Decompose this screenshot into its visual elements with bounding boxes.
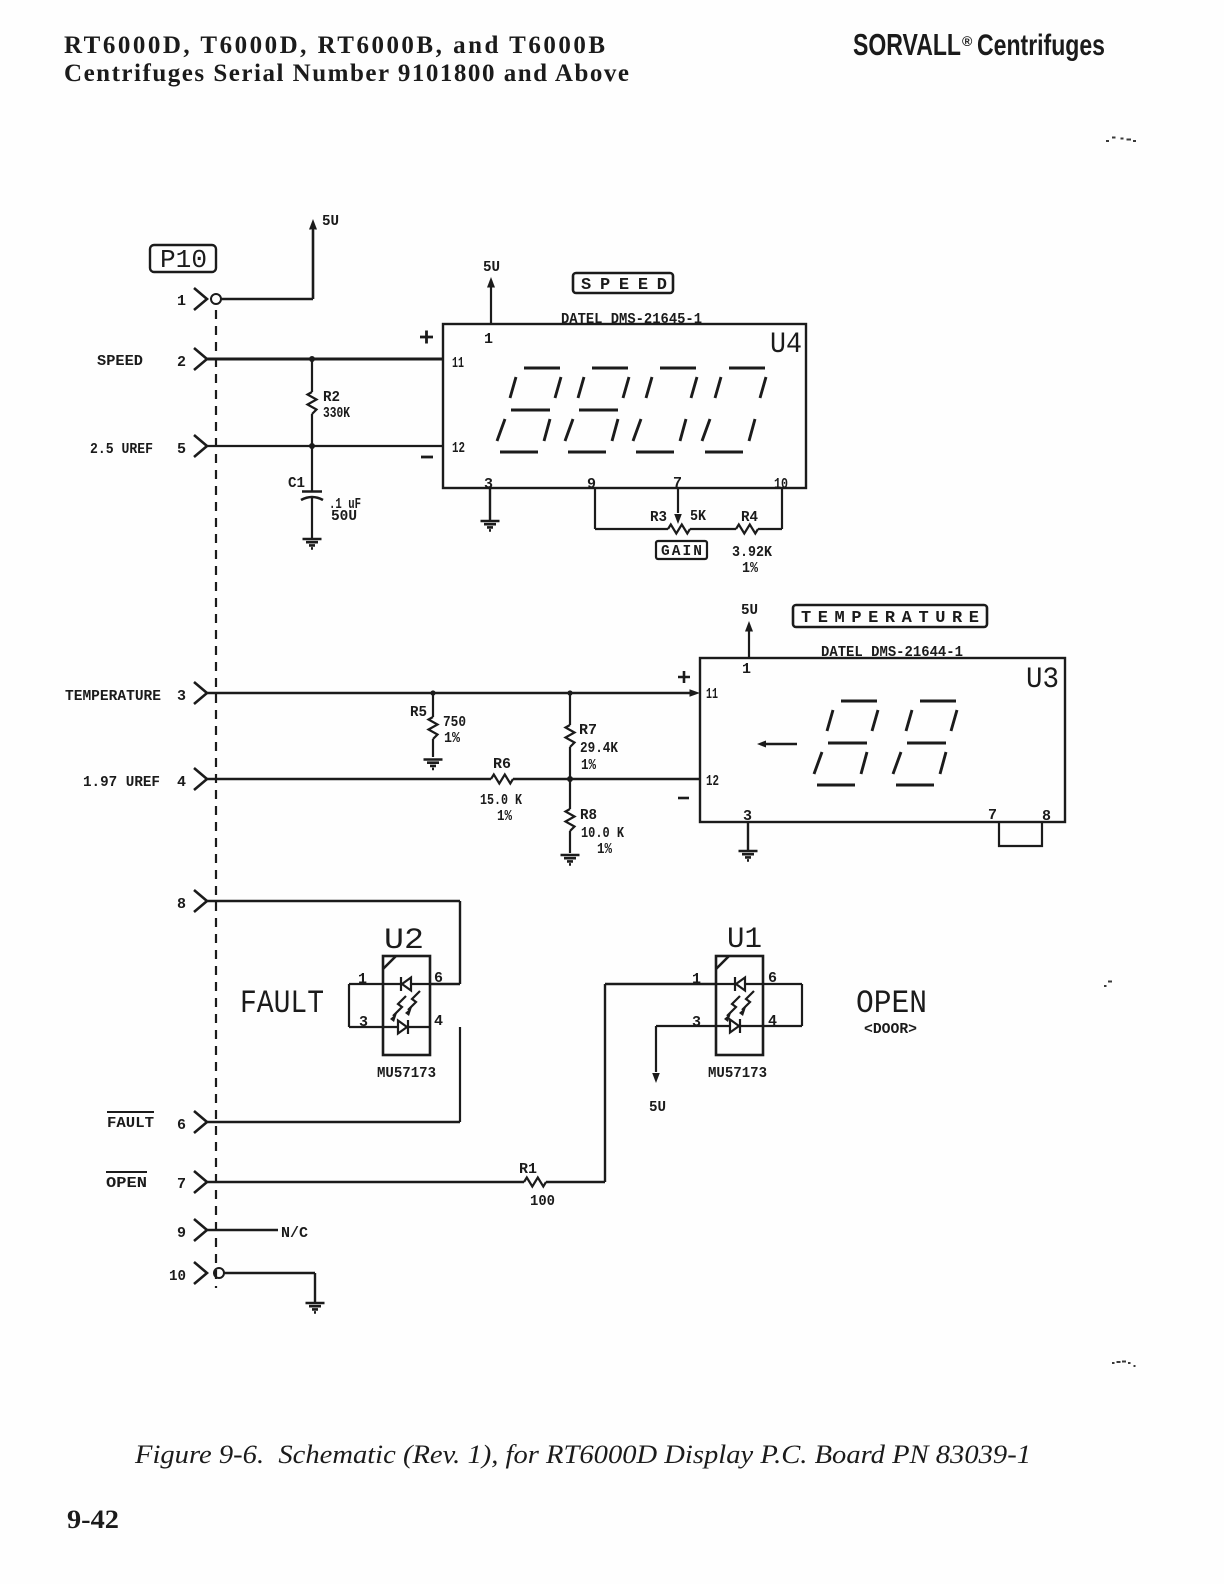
U4 pin 12 number: [452, 440, 465, 457]
pin 1 of P10: [177, 293, 186, 310]
resistor R2: [308, 359, 317, 446]
power 5V label upper-left: [322, 213, 339, 230]
U1 pin 6 number: [768, 970, 777, 987]
svg-text:9: 9: [177, 1225, 186, 1242]
U3 pin 3 number: [743, 808, 752, 825]
resistor R1 body: [524, 1178, 546, 1187]
optocoupler U2 box: [383, 956, 430, 1055]
svg-text:11: 11: [452, 355, 464, 372]
page number: [67, 1505, 119, 1534]
U2 pin 1 number: [358, 971, 367, 988]
SPEED title text: [581, 276, 667, 295]
svg-text:4: 4: [434, 1013, 443, 1030]
optocoupler U1 box: [716, 956, 763, 1055]
U4 pin 7 number: [673, 475, 682, 492]
U4 pin 1 number: [484, 331, 493, 348]
R3 wiper arrow from U4 pin7: [674, 488, 682, 524]
svg-text:11: 11: [706, 686, 718, 703]
svg-text:5U: 5U: [322, 213, 339, 230]
pin 10 chevron: [194, 1262, 207, 1284]
ground below pin10: [306, 1303, 325, 1312]
svg-text:1%: 1%: [581, 758, 596, 774]
svg-text:2: 2: [177, 354, 186, 371]
junction dot R7 top: [567, 690, 572, 695]
U4 digit 4: [702, 368, 766, 452]
svg-text:6: 6: [434, 970, 443, 987]
svg-text:1: 1: [358, 971, 367, 988]
net label OPENbar: [106, 1172, 147, 1192]
U2 lower LED: [383, 1020, 430, 1034]
junction dot R5 top: [430, 690, 435, 695]
net label 1.97 VREF: [83, 775, 160, 791]
U3 pin 7 number: [988, 807, 997, 824]
svg-text:R1: R1: [519, 1162, 537, 1178]
ground below C1: [303, 539, 322, 548]
resistor R8: [566, 779, 575, 853]
wire R4 to U4 pin10: [758, 488, 782, 529]
svg-text:OPEN: OPEN: [106, 1176, 147, 1192]
pin 6 of P10: [177, 1117, 186, 1134]
wire pin8 to U2 pin6: [207, 901, 460, 984]
GAIN label box: [656, 541, 707, 559]
svg-text:DATEL DMS-21645-1: DATEL DMS-21645-1: [561, 312, 702, 328]
svg-text:5U: 5U: [483, 259, 500, 276]
U1 pin 4 number: [768, 1013, 777, 1030]
wire R3 to R4: [690, 528, 736, 530]
svg-text:U2: U2: [384, 924, 424, 958]
svg-text:8: 8: [177, 896, 186, 913]
ground below U4 pin3: [481, 521, 500, 530]
svg-text:5K: 5K: [690, 509, 706, 525]
svg-text:7: 7: [988, 807, 997, 824]
U4 pin 11 number: [452, 355, 464, 372]
U2 upper LED: [383, 977, 430, 991]
pin 2 chevron: [194, 348, 207, 370]
svg-text:1%: 1%: [497, 809, 512, 825]
svg-text:50U: 50U: [331, 509, 357, 525]
U4 plus polarity sign: [420, 331, 433, 344]
svg-text:RT6000D, T6000D, RT6000B, and: RT6000D, T6000D, RT6000B, and T6000B: [64, 32, 605, 59]
U3 pin 12 number: [706, 773, 719, 790]
TEMPERATURE title box: [793, 605, 987, 627]
svg-text:12: 12: [706, 773, 719, 790]
wire U4 pin3 to ground: [489, 488, 491, 520]
svg-text:Centrifuges Serial Number 9101: Centrifuges Serial Number 9101800 and Ab…: [64, 60, 629, 87]
display U4 box: [443, 324, 806, 488]
svg-text:4: 4: [768, 1013, 777, 1030]
pin 1 circle node: [211, 294, 221, 304]
svg-text:1%: 1%: [742, 561, 758, 577]
pin 2 of P10: [177, 354, 186, 371]
display U3 refdes: [1026, 663, 1059, 697]
U2 pin 4 number: [434, 1013, 443, 1030]
U3 pin 11 number: [706, 686, 718, 703]
ground below U3 pin3: [739, 851, 758, 860]
caption figure title: [134, 1440, 1031, 1469]
svg-text:3: 3: [484, 476, 493, 493]
svg-text:FAULT: FAULT: [240, 985, 324, 1022]
wire pin9 stub: [207, 1229, 278, 1231]
display U4 refdes: [770, 328, 802, 362]
U4 digit 3: [633, 368, 697, 452]
svg-text:®: ®: [962, 33, 973, 49]
U2 pin 6 number: [434, 970, 443, 987]
net label TEMPERATURE: [65, 689, 161, 705]
svg-text:5U: 5U: [741, 602, 758, 619]
pin 1 chevron: [194, 288, 207, 310]
pin 8 chevron: [194, 890, 207, 912]
svg-text:3: 3: [177, 688, 186, 705]
svg-text:330K: 330K: [323, 406, 350, 422]
power 5V arrow above U3: [745, 621, 753, 658]
pin 7 of P10: [177, 1176, 186, 1193]
svg-text:R3: R3: [650, 510, 667, 526]
wire TEMPERATURE pin3 to U3 pin11: [207, 689, 700, 697]
pin 9 chevron: [194, 1219, 207, 1241]
resistor R4 body: [736, 525, 758, 534]
U1 lower LED: [716, 1019, 763, 1033]
resistor R1 labels: [519, 1162, 555, 1210]
U4 pin 10 number: [774, 476, 788, 493]
svg-text:MU57173: MU57173: [708, 1065, 767, 1082]
U4 minus polarity sign: [421, 456, 433, 459]
R3 label: [650, 510, 667, 526]
power 5V label above U3: [741, 602, 758, 619]
pin 10 circle node: [214, 1268, 224, 1278]
wire U1 pin3 to 5V arrow: [652, 1026, 716, 1083]
wire pin10 to ground: [224, 1273, 315, 1302]
svg-text:5: 5: [177, 441, 186, 458]
pin 4 of P10: [177, 774, 186, 791]
header left line 1: [64, 32, 605, 59]
net label SPEED: [97, 354, 143, 370]
U4 digit 1: [497, 368, 561, 452]
N/C label: [281, 1226, 308, 1242]
wire R6 to U3 pin12: [513, 778, 700, 780]
net label FAULTbar: [107, 1112, 154, 1132]
svg-text:U4: U4: [770, 328, 802, 362]
R4 tolerance 1%: [742, 561, 758, 577]
svg-text:FAULT: FAULT: [107, 1116, 154, 1132]
junction dot SPEED/R2: [309, 356, 315, 362]
svg-text:MU57173: MU57173: [377, 1065, 436, 1082]
U1 upper LED: [716, 977, 763, 991]
potentiometer R3 body: [668, 525, 690, 534]
svg-text:TEMPERATURE: TEMPERATURE: [65, 689, 161, 705]
svg-text:1.97 UREF: 1.97 UREF: [83, 775, 160, 791]
svg-text:6: 6: [177, 1117, 186, 1134]
U2 part number MV57173: [377, 1065, 436, 1082]
svg-text:SPEED: SPEED: [97, 354, 143, 370]
svg-text:N/C: N/C: [281, 1226, 308, 1242]
wire FAULTbar pin6 to U2 pin4: [207, 1121, 460, 1123]
ground below R8: [561, 855, 580, 864]
U3 minus polarity sign: [678, 797, 689, 800]
wire 2.5VREF pin5 to U4 pin12: [207, 445, 443, 447]
U3 digit 2: [893, 701, 957, 785]
svg-text:TEMPERATURE: TEMPERATURE: [801, 609, 979, 628]
capacitor C1 labels: [288, 476, 361, 525]
U3 minus display segment: [757, 741, 797, 748]
svg-text:SORVALL: SORVALL: [853, 27, 961, 62]
svg-text:P10: P10: [160, 245, 207, 275]
connector P10 label box: [150, 245, 216, 272]
R4 label: [741, 510, 758, 526]
resistor R5 labels: [410, 705, 466, 747]
U2 left bracket pins 1-3: [349, 984, 383, 1027]
U1 part number MV57173: [708, 1065, 767, 1082]
svg-text:29.4K: 29.4K: [580, 741, 618, 757]
pin 5 of P10: [177, 441, 186, 458]
svg-text:U1: U1: [727, 923, 762, 957]
resistor R6 labels: [480, 757, 522, 825]
U2 pin 3 number: [359, 1014, 368, 1031]
U3 digit 1: [814, 701, 878, 785]
net label 2.5 VREF: [90, 442, 153, 458]
pin 4 chevron: [194, 768, 207, 790]
svg-text:1: 1: [177, 293, 186, 310]
R3 value 5K: [690, 509, 706, 525]
svg-text:R8: R8: [580, 808, 597, 824]
svg-text:10: 10: [169, 1268, 186, 1285]
wire U3 pin3 to ground: [747, 822, 749, 851]
svg-text:12: 12: [452, 440, 465, 457]
pin 6 chevron: [194, 1111, 207, 1133]
optocoupler U2 refdes: [384, 924, 424, 958]
FAULT display label: [240, 985, 324, 1022]
svg-text:7: 7: [177, 1176, 186, 1193]
svg-text:1%: 1%: [444, 731, 460, 747]
wire SPEED line pin2 to U4 pin11: [207, 358, 443, 361]
header right brand: [853, 27, 1105, 62]
capacitor C1: [301, 446, 323, 538]
junction dot 2.5VREF/C1: [309, 443, 315, 449]
power 5V label above U4: [483, 259, 500, 276]
svg-text:Figure 9-6. Schematic (Rev. 1: Figure 9-6. Schematic (Rev. 1), for RT60…: [134, 1440, 1031, 1469]
power 5V arrow upper-left: [309, 219, 317, 230]
svg-text:3: 3: [359, 1014, 368, 1031]
wire 1.97VREF pin4 to R6: [207, 778, 491, 780]
wire OPENbar pin7 to R1: [207, 1181, 524, 1183]
OPEN display label: [856, 985, 927, 1022]
pin 9 of P10: [177, 1225, 186, 1242]
U1 emission arrows: [724, 991, 754, 1022]
resistor R7: [566, 693, 575, 779]
U3 pin 1 number: [742, 661, 751, 678]
svg-text:1: 1: [484, 331, 493, 348]
R4 value 3.92K: [732, 545, 772, 561]
wire loop U1 pins 6-4: [763, 984, 802, 1026]
connector P10 label text: [160, 245, 207, 275]
svg-text:1: 1: [692, 971, 701, 988]
resistor R2 label: [323, 390, 350, 422]
svg-text:GAIN: GAIN: [661, 544, 702, 560]
svg-text:100: 100: [530, 1194, 555, 1210]
TEMPERATURE title text: [801, 609, 979, 628]
resistor R5: [429, 693, 438, 757]
GAIN label text: [661, 544, 702, 560]
wire pin1 to 5V riser: [221, 230, 313, 299]
wire U4 pin9 down: [595, 488, 668, 529]
U4 pin 3 number: [484, 476, 493, 493]
U1 pin 3 number: [692, 1014, 701, 1031]
pin 3 of P10: [177, 688, 186, 705]
svg-text:OPEN: OPEN: [856, 985, 927, 1022]
wire U2 pin4 down to FAULTbar line: [459, 1027, 461, 1122]
wire R1 to U1 pin1 riser: [546, 984, 716, 1182]
U3 pin 8 number: [1042, 808, 1051, 825]
svg-text:2.5 UREF: 2.5 UREF: [90, 442, 153, 458]
svg-text:R2: R2: [323, 390, 340, 406]
svg-text:U3: U3: [1026, 663, 1059, 697]
svg-text:R7: R7: [579, 723, 597, 739]
svg-text:8: 8: [1042, 808, 1051, 825]
power 5V label below U1: [649, 1099, 666, 1116]
svg-text:3.92K: 3.92K: [732, 545, 772, 561]
DOOR sublabel: [864, 1022, 917, 1038]
pin 8 of P10: [177, 896, 186, 913]
svg-text:4: 4: [177, 774, 186, 791]
svg-text:9-42: 9-42: [67, 1505, 119, 1534]
svg-text:1%: 1%: [597, 842, 612, 858]
svg-text:10.0 K: 10.0 K: [581, 826, 624, 842]
svg-text:5U: 5U: [649, 1099, 666, 1116]
resistor R6 body: [491, 775, 513, 784]
wire loop U3 pins 7-8: [999, 822, 1042, 846]
U3 plus polarity sign: [678, 671, 690, 683]
U4 pin 9 number: [587, 476, 596, 493]
pin 7 chevron: [194, 1171, 207, 1193]
SPEED title box: [573, 273, 673, 293]
header left line 2: [64, 60, 629, 87]
svg-text:750: 750: [443, 715, 466, 731]
junction dot R7/R6/R8: [567, 776, 573, 782]
pin 10 of P10: [169, 1268, 186, 1285]
svg-text:R5: R5: [410, 705, 427, 721]
svg-text:3: 3: [692, 1014, 701, 1031]
U2 emission arrows: [390, 991, 420, 1022]
U1 pin 1 number: [692, 971, 701, 988]
svg-text:R6: R6: [493, 757, 511, 773]
part number DATEL DMS-21645-1: [561, 312, 702, 328]
pin 3 chevron: [194, 682, 207, 704]
optocoupler U1 refdes: [727, 923, 762, 957]
svg-text:<DOOR>: <DOOR>: [864, 1022, 917, 1038]
svg-text:Centrifuges: Centrifuges: [977, 29, 1105, 62]
P10 dashed connector boundary line: [215, 310, 217, 1288]
scan artifact marks right edge: [1104, 138, 1136, 1367]
resistor R8 labels: [580, 808, 624, 858]
svg-text:15.0 K: 15.0 K: [480, 793, 522, 809]
display U3 box: [700, 658, 1065, 822]
resistor R7 labels: [579, 723, 618, 774]
part number DATEL DMS-21644-1: [821, 645, 963, 661]
U4 digit 2: [565, 368, 629, 452]
power 5V arrow above U4: [487, 277, 495, 324]
ground below R5: [424, 760, 443, 769]
svg-text:C1: C1: [288, 476, 305, 492]
svg-text:R4: R4: [741, 510, 758, 526]
svg-text:1: 1: [742, 661, 751, 678]
pin 5 chevron: [194, 435, 207, 457]
